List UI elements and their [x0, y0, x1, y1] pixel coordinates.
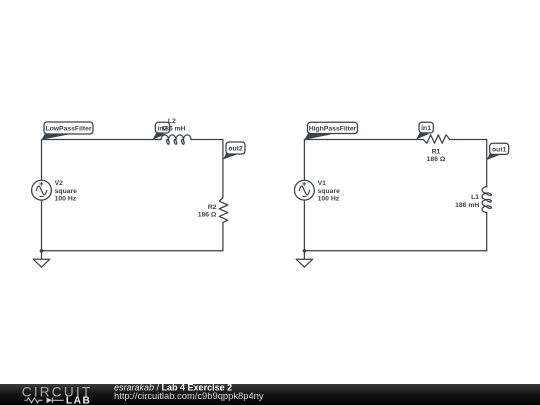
node: left circuit ground junction [40, 249, 44, 253]
wire: right circuit right rail top (net out1) [486, 140, 488, 187]
wire: right circuit left rail below V1 [303, 200, 305, 251]
svg-text:186 Ω: 186 Ω [198, 212, 217, 219]
svg-text:square: square [55, 188, 78, 195]
svg-text:in1: in1 [421, 125, 431, 132]
inductor L1 [482, 187, 492, 213]
logo: CIRCUIT wordmark [22, 384, 93, 399]
svg-text:out2: out2 [228, 146, 243, 153]
svg-text:V1: V1 [318, 180, 327, 187]
logo: resistor-diode glyph [25, 398, 64, 404]
wire: left circuit bottom rail [42, 250, 223, 252]
net flag: in1 [416, 122, 433, 139]
wire: right circuit top rail (net in1) [304, 139, 423, 141]
wire: left circuit right rail top (net out2) [222, 140, 224, 198]
wire: right circuit right rail bottom [486, 213, 488, 251]
net flag: in2 [152, 122, 169, 140]
ground (right circuit) [296, 251, 313, 267]
svg-text:186 Ω: 186 Ω [427, 156, 446, 163]
wire: R1 right lead to top-right corner [450, 139, 487, 141]
svg-text:out1: out1 [492, 147, 507, 154]
wire: right circuit left rail above V1 [303, 140, 305, 181]
label: R2 value 186 Ohm [198, 212, 217, 219]
svg-text:http://circuitlab.com/c9b9qppk: http://circuitlab.com/c9b9qppk8p4ny [114, 390, 264, 401]
label: L1 name [471, 194, 479, 201]
resistor R2 [219, 198, 228, 223]
logo: LAB wordmark [66, 396, 91, 405]
svg-text:186 mH: 186 mH [455, 202, 479, 209]
voltage source V2 [32, 180, 52, 200]
wire: left circuit top rail (net in2) [42, 139, 162, 141]
wire: left circuit left rail below V2 [41, 200, 43, 251]
label: R1 name [432, 148, 441, 155]
node: right circuit ground junction [303, 249, 307, 253]
label: L1 value 186 mH [455, 202, 479, 209]
wire: right circuit bottom rail [304, 250, 486, 252]
wire: L2 right lead to top-right corner [191, 139, 223, 141]
svg-text:186 mH: 186 mH [161, 125, 185, 132]
svg-text:R2: R2 [208, 204, 217, 211]
svg-text:square: square [318, 188, 341, 195]
inductor L2 [161, 135, 191, 145]
net flag: out1 [487, 143, 509, 160]
label: V1 name and params [318, 180, 341, 202]
voltage source V1 [295, 180, 315, 200]
net flag: LowPassFilter [42, 122, 94, 140]
footer: title text [114, 383, 232, 393]
svg-text:L1: L1 [471, 194, 479, 201]
net flag: out2 [223, 142, 245, 160]
label: L2 name [168, 118, 176, 125]
svg-text:LowPassFilter: LowPassFilter [45, 126, 91, 133]
footer: url text [114, 390, 264, 401]
svg-text:R1: R1 [432, 148, 441, 155]
svg-text:HighPassFilter: HighPassFilter [309, 125, 357, 132]
svg-text:100 Hz: 100 Hz [318, 195, 340, 202]
wire: left circuit left rail above V2 [41, 140, 43, 181]
label: V2 name and params [55, 180, 78, 202]
label: R2 name [208, 204, 217, 211]
wire: left circuit right rail bottom [222, 223, 224, 251]
resistor R1 [423, 135, 449, 144]
ground (left circuit) [33, 251, 50, 267]
net flag: HighPassFilter [304, 122, 357, 140]
svg-text:100 Hz: 100 Hz [55, 195, 77, 202]
label: R1 value 186 Ohm [427, 156, 446, 163]
label: L2 value 186 mH [161, 125, 185, 132]
svg-text:LAB: LAB [66, 396, 91, 405]
svg-text:V2: V2 [55, 180, 64, 187]
